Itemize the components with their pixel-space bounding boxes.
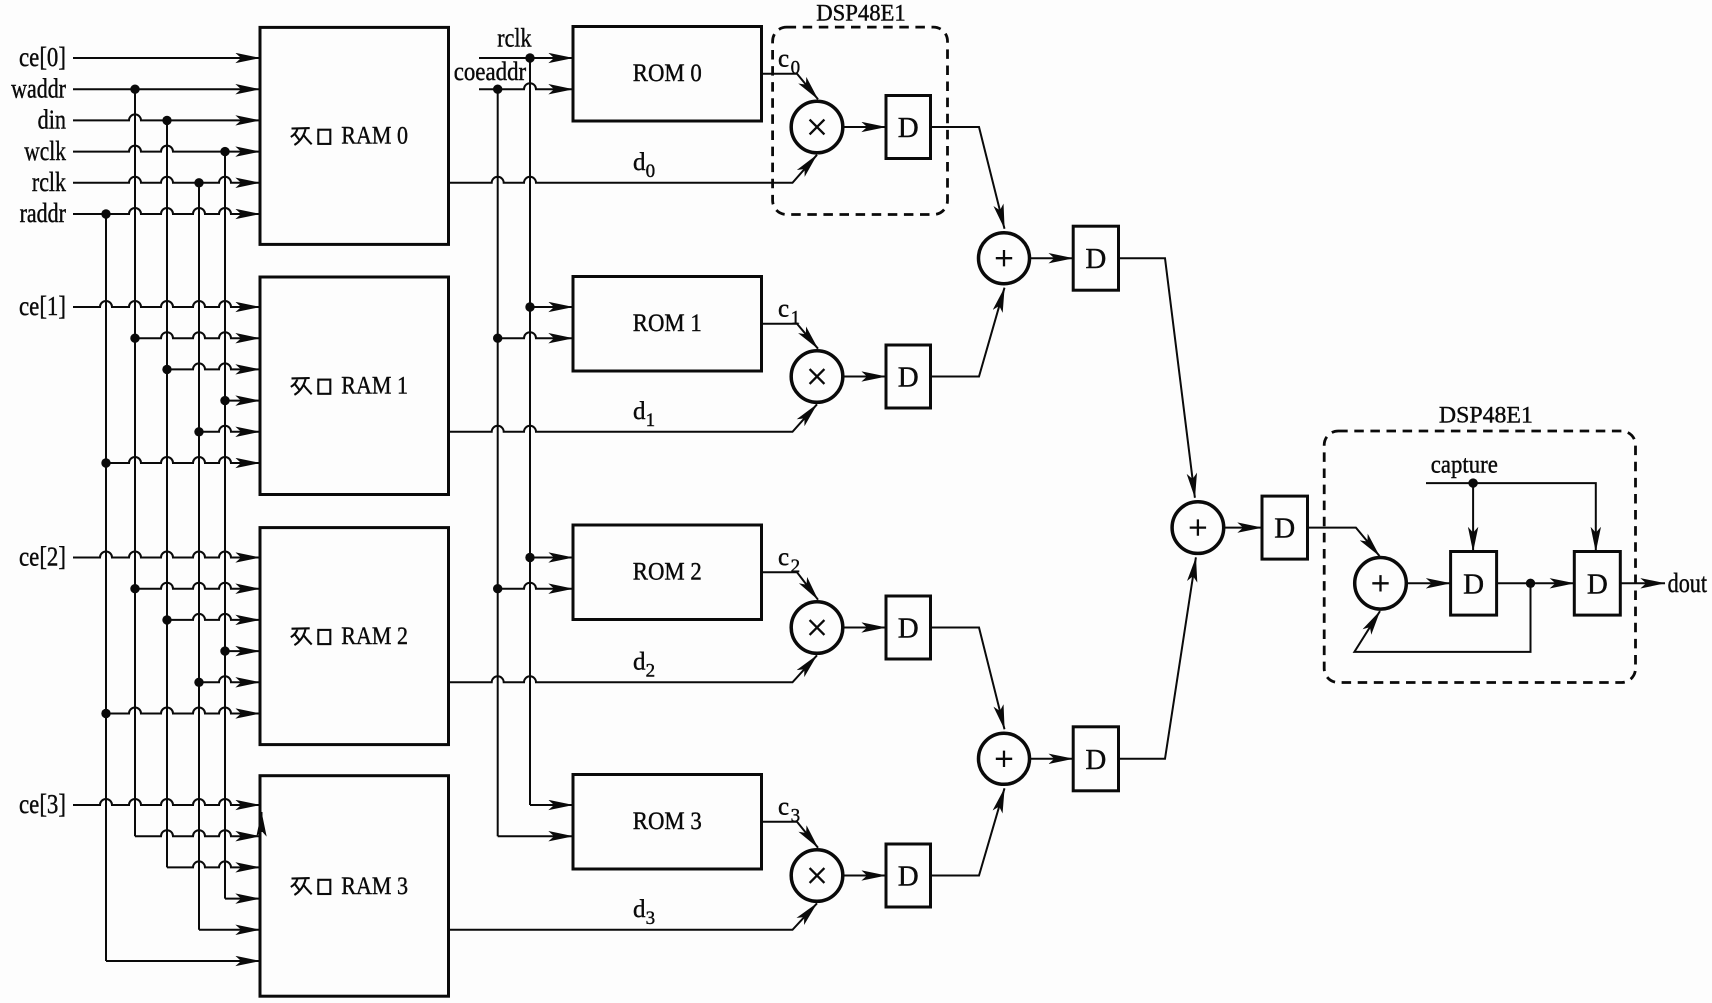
junction capture branch [1468,478,1477,487]
svg-text:waddr: waddr [11,73,66,103]
adder A0 [979,233,1030,284]
small up arrow on RAM3 left edge [261,812,263,832]
svg-text:ce[2]: ce[2] [19,542,66,572]
wire adder A0 to register [1030,257,1074,259]
wire D3 to adder A1 [931,788,1005,875]
wire din branch to RAM2 [167,614,260,620]
register D (level1, group 2) [886,596,931,659]
wire wclk branch to RAM1 [225,400,260,402]
wire wclk to RAM0 [73,146,260,152]
svg-text:ce[1]: ce[1] [19,291,66,321]
wire rclk column (right) [529,58,531,805]
wire ce[2] to RAM2 [73,552,260,558]
wire rclk to ROM0 [479,57,573,59]
svg-text:D: D [898,362,919,394]
svg-text:din: din [38,105,67,135]
svg-text:1: 1 [791,308,801,329]
svg-text:c: c [778,46,789,73]
svg-text:rclk: rclk [497,23,531,52]
svg-text:d: d [633,896,646,923]
ROM 1 box [573,277,762,372]
svg-text:D: D [1274,513,1295,545]
ROM 0 box [573,27,762,122]
wire rclk branch to ROM2 [530,557,573,559]
junction raddr/RAM1 [101,458,110,467]
svg-text:D: D [898,861,919,893]
svg-text:rclk: rclk [32,167,66,197]
svg-text:ROM 2: ROM 2 [633,559,702,586]
wire D0 to adder A0 [931,127,1005,229]
wire multiplier M0 to register D [843,126,886,128]
svg-text:2: 2 [646,661,656,682]
svg-text:RAM 1: RAM 1 [341,373,408,400]
svg-text:3: 3 [646,908,656,929]
svg-text:D: D [898,112,919,144]
junction acc output node [1526,579,1535,588]
svg-text:0: 0 [791,58,801,79]
svg-text:D: D [1085,744,1106,776]
ROM 3 box [573,775,762,870]
junction din column start [162,116,171,125]
svg-text:ce[0]: ce[0] [19,42,66,72]
junction coeaddr col start [493,85,502,94]
junction din/RAM2 [162,615,171,624]
wire wclk branch to RAM3 [225,898,260,900]
wire raddr branch to RAM3 [106,960,260,962]
RAM 1 label 双口 RAM 1 [291,378,331,395]
wire register D to accumulator adder [1308,528,1380,556]
wire raddr to RAM0 [73,208,260,214]
svg-text:DSP48E1: DSP48E1 [816,1,906,26]
svg-text:ROM 1: ROM 1 [633,310,702,337]
svg-text:capture: capture [1431,451,1498,478]
multiplier M1 [791,351,843,403]
svg-text:d: d [633,149,646,176]
junction wclk column start [220,147,229,156]
svg-text:RAM 3: RAM 3 [341,873,408,900]
svg-text:wclk: wclk [24,136,66,166]
wire din branch to RAM3 [167,861,260,867]
wire adder A1 to register [1030,758,1074,760]
wire ce[1] to RAM1 [73,301,260,307]
svg-text:RAM 0: RAM 0 [341,123,408,150]
wire coeaddr column (right) [497,89,499,836]
wire c3 ROM3 to multiplier [762,822,819,848]
wire D2 to adder A1 [931,628,1005,730]
wire acc D to output D [1497,582,1575,584]
wire accumulator feedback [1354,583,1530,652]
junction waddr/RAM2 [130,584,139,593]
wire din branch to RAM1 [167,363,260,369]
register D (level2, 1) [1073,727,1118,791]
svg-text:3: 3 [791,806,801,827]
wire rclk to RAM0 [73,177,260,183]
wire ce[0] to RAM0 [73,57,260,59]
wire rclk branch to RAM3 [199,929,260,931]
junction coeaddr/ROM2 [493,584,502,593]
DSP48E1 dashed box (right) [1324,431,1635,683]
wire d3 RAM3 to multiplier [449,903,818,930]
wire dout [1620,582,1665,584]
wire d2 RAM2 to multiplier [449,655,818,682]
dual-port RAM 3 box [260,776,449,997]
wire multiplier M3 to register D [843,875,886,877]
register D (level3) [1262,496,1308,559]
svg-text:D: D [1085,243,1106,275]
junction wclk/RAM1 [220,396,229,405]
junction raddr/RAM2 [101,709,110,718]
wire capture line [1426,483,1596,551]
wire raddr bus column [105,214,107,961]
wire d1 RAM1 to multiplier [449,404,818,432]
svg-text:d: d [633,398,646,425]
wire coeaddr to ROM0 [479,83,573,89]
register D (output) [1574,552,1620,616]
junction raddr column start [101,209,110,218]
wire waddr to RAM0 [73,88,260,90]
dual-port RAM 2 box [260,528,449,745]
junction din/RAM1 [162,365,171,374]
wire coeaddr branch to ROM1 [498,332,573,338]
multiplier M3 [791,850,843,902]
wire multiplier M2 to register D [843,627,886,629]
wire wclk bus column [224,152,226,899]
wire rclk branch to RAM2 [199,676,260,682]
svg-text:D: D [1587,568,1608,600]
DSP48E1 dashed box (top) [773,27,948,214]
RAM 3 label 双口 RAM 3 [291,878,331,895]
junction rclk/RAM1 [194,427,203,436]
wire waddr branch to RAM1 [135,332,260,338]
junction wclk/RAM2 [220,646,229,655]
wire wclk branch to RAM2 [225,650,260,652]
svg-text:raddr: raddr [20,198,66,228]
wire raddr branch to RAM2 [106,708,260,714]
wire din to RAM0 [73,114,260,120]
junction rclk/ROM2 [525,553,534,562]
wire D1 to adder A0 [931,288,1005,377]
svg-text:RAM 2: RAM 2 [341,623,408,650]
svg-text:ce[3]: ce[3] [19,789,66,819]
register D (level1, group 1) [886,345,931,408]
wire rclk bus column [198,183,200,930]
wire din bus column [166,120,168,867]
ROM 2 box [573,525,762,620]
junction rclk col start [525,53,534,62]
svg-text:DSP48E1: DSP48E1 [1439,402,1533,427]
svg-text:D: D [898,613,919,645]
wire d0 RAM0 to multiplier [449,155,818,183]
svg-text:c: c [778,544,789,571]
junction rclk/RAM2 [194,678,203,687]
register D (level1, group 0) [886,96,931,159]
svg-text:2: 2 [791,556,801,577]
wire rclk branch to ROM3 [530,804,573,806]
wire c1 ROM1 to multiplier [762,324,819,349]
svg-text:c: c [778,794,789,821]
wire waddr branch to RAM3 [135,830,260,836]
svg-text:c: c [778,296,789,323]
RAM 0 label 双口 RAM 0 [291,128,331,145]
wire waddr branch to RAM2 [135,583,260,589]
wire coeaddr branch to ROM3 [498,835,573,837]
adder A1 [979,733,1030,784]
register D (level2, 0) [1073,226,1118,290]
junction rclk/ROM1 [525,302,534,311]
wire rclk branch to RAM1 [199,426,260,432]
register D (level1, group 3) [886,844,931,907]
svg-text:D: D [1463,568,1484,600]
junction waddr column start [130,85,139,94]
final adder A2 [1172,502,1224,554]
wire adder to register D (acc) [1406,582,1450,584]
wire rclk branch to ROM1 [530,306,573,308]
register D (accumulator) [1451,552,1497,616]
accumulator adder [1355,558,1407,610]
svg-text:ROM 0: ROM 0 [633,60,702,87]
wire c0 ROM0 to multiplier [762,74,819,99]
wire level2-D lower to final adder [1119,557,1196,758]
RAM 2 label 双口 RAM 2 [291,628,331,645]
wire capture to acc D [1472,483,1474,551]
wire final adder to register D [1224,527,1262,529]
junction rclk column start [194,178,203,187]
wire ce[3] to RAM3 [73,799,260,805]
svg-text:coeaddr: coeaddr [454,57,527,86]
junction waddr/RAM1 [130,334,139,343]
junction coeaddr/ROM1 [493,334,502,343]
wire waddr bus column [134,89,136,836]
wire level2-D upper to final adder [1119,258,1195,498]
dual-port RAM 1 box [260,277,449,495]
wire multiplier M1 to register D [843,376,886,378]
dual-port RAM 0 box [260,27,449,244]
multiplier M0 [791,101,843,153]
svg-text:d: d [633,649,646,676]
wire coeaddr branch to ROM2 [498,583,573,589]
multiplier M2 [791,602,843,654]
wire raddr branch to RAM1 [106,457,260,463]
svg-text:dout: dout [1668,568,1708,598]
svg-text:0: 0 [646,161,656,182]
svg-text:ROM 3: ROM 3 [633,808,702,835]
svg-text:1: 1 [646,410,656,431]
wire c2 ROM2 to multiplier [762,572,819,599]
